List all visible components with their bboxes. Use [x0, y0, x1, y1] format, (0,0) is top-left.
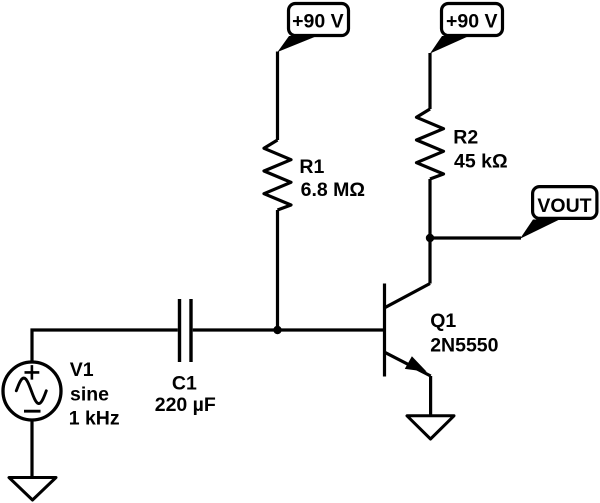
- svg-text:+90 V: +90 V: [292, 10, 344, 32]
- resistor R1: [264, 140, 291, 210]
- svg-text:sine: sine: [70, 383, 109, 405]
- ground under V1: [9, 478, 56, 501]
- net flag VOUT: [520, 187, 597, 239]
- voltage source V1 (sine source with + - and sine symbol): [3, 362, 61, 478]
- ground under Q1 emitter: [407, 416, 454, 439]
- svg-text:45 kΩ: 45 kΩ: [454, 151, 508, 173]
- wire from C1 right plate to Q1 base: [193, 328, 385, 331]
- transistor Q1 emitter arrowhead: [405, 356, 427, 371]
- transistor Q1 base bar: [383, 284, 386, 377]
- wire from V1 top corner to C1 left plate: [32, 330, 178, 362]
- svg-text:R2: R2: [453, 127, 478, 149]
- wire from emitter to ground: [429, 376, 432, 416]
- transistor Q1 emitter lead: [385, 352, 431, 376]
- svg-text:VOUT: VOUT: [537, 195, 591, 217]
- wire from node down to Q1 collector: [428, 238, 431, 284]
- resistor R2: [417, 109, 444, 179]
- svg-text:R1: R1: [299, 156, 324, 178]
- capacitor C1: [180, 299, 192, 362]
- svg-text:2N5550: 2N5550: [430, 334, 498, 356]
- transistor Q1 collector lead: [385, 284, 431, 308]
- svg-text:Q1: Q1: [430, 310, 456, 332]
- wire from +90V flag to R1 top: [276, 52, 279, 141]
- svg-text:1 kHz: 1 kHz: [69, 407, 120, 429]
- junction dot at base node: [273, 326, 281, 334]
- net flag +90 V supplying R1: [278, 4, 349, 53]
- wire from R2 bottom to collector node: [428, 179, 431, 238]
- svg-text:+90 V: +90 V: [446, 10, 498, 32]
- svg-text:V1: V1: [70, 359, 94, 381]
- junction dot at collector/VOUT node: [426, 234, 434, 242]
- wire from collector node to VOUT flag: [430, 236, 521, 239]
- wire from +90V flag to R2 top: [428, 53, 431, 109]
- net flag +90 V supplying R2: [430, 4, 503, 54]
- svg-text:220 µF: 220 µF: [155, 394, 216, 416]
- svg-text:6.8 MΩ: 6.8 MΩ: [301, 179, 365, 201]
- svg-text:C1: C1: [172, 372, 197, 394]
- wire from R1 bottom to base node: [276, 210, 279, 330]
